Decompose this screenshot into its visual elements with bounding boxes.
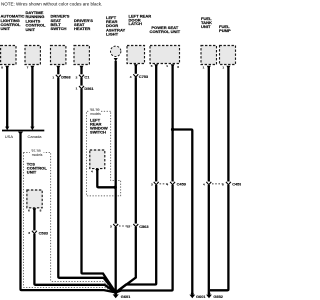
dashed link C459 right pair: [212, 183, 225, 185]
dashed boundary '98-'99 models: [87, 111, 121, 196]
component box fuel tank unit: [201, 46, 217, 70]
dashed boundary '97-'99 models left edge: [23, 153, 112, 292]
svg-text:LEFT REARDOORLATCH: LEFT REARDOORLATCH: [129, 13, 152, 26]
lamp left rear door ashtray light: [111, 46, 121, 61]
label '97-'99 models: [30, 151, 44, 155]
wire from daytime running lights control unit: [31, 66, 33, 127]
svg-text:4: 4: [203, 183, 205, 187]
connector C459 pin 4 fuel tank: [203, 182, 211, 187]
svg-text:C583: C583: [39, 230, 49, 235]
component box left rear door latch: [127, 46, 145, 68]
svg-text:C459: C459: [232, 182, 241, 187]
wire from driver's seat heater: [82, 66, 116, 292]
wire from driver's seat belt switch: [58, 66, 115, 292]
connector C563 pin 11 on door latch wire: [127, 224, 150, 229]
svg-text:1: 1: [222, 65, 224, 69]
svg-text:8: 8: [1, 65, 3, 69]
svg-text:4: 4: [91, 169, 93, 173]
svg-text:5: 5: [151, 64, 153, 68]
dashed link C563: [119, 225, 132, 227]
svg-text:AUTOMATICLIGHTINGCONTROLUNIT: AUTOMATICLIGHTINGCONTROLUNIT: [1, 14, 25, 32]
wire from left rear window switch to splice: [97, 169, 115, 187]
connector C459 pin 3: [151, 182, 159, 187]
splice bar USA / Canada: [2, 130, 44, 132]
connector C583 on TCS wire: [28, 230, 48, 235]
connector D568: [52, 74, 71, 79]
component box driver's seat belt switch: [51, 46, 66, 70]
component box driver's seat heater: [74, 46, 89, 70]
svg-text:LEFTREARWINDOWSWITCH: LEFTREARWINDOWSWITCH: [90, 118, 108, 135]
svg-text:FUELTANKUNIT: FUELTANKUNIT: [201, 16, 212, 29]
wire from left rear door latch: [116, 65, 136, 293]
svg-text:3: 3: [110, 225, 112, 229]
svg-text:3: 3: [151, 183, 153, 187]
svg-text:C459: C459: [177, 182, 187, 187]
svg-text:Canada: Canada: [28, 134, 43, 139]
dashed link C459 left pair: [160, 183, 170, 185]
svg-text:TCSCONTROLUNIT: TCSCONTROLUNIT: [27, 162, 48, 175]
component box left rear window switch: [90, 150, 105, 173]
wire from fuel pump joining G552: [210, 66, 228, 290]
connector C563 pin 3 on ashtray light wire: [110, 224, 118, 229]
connector C753: [130, 74, 149, 79]
svg-text:'98-'99models: '98-'99models: [90, 108, 101, 116]
wire from TCS control unit: [34, 209, 115, 293]
svg-text:D561: D561: [84, 86, 94, 91]
wire from automatic lighting control unit: [6, 66, 8, 127]
junction dot power seat branch: [171, 128, 174, 131]
svg-text:4: 4: [130, 75, 132, 79]
junction dot on ashtray light wire: [114, 186, 117, 189]
ground G552: [206, 292, 224, 299]
dashed boundary '97-'99 models top and right edge: [23, 153, 111, 289]
svg-text:FUELPUMP: FUELPUMP: [219, 24, 231, 33]
svg-text:1: 1: [203, 65, 205, 69]
svg-text:5: 5: [222, 183, 224, 187]
component box power seat control unit: [150, 46, 180, 70]
svg-text:C1: C1: [84, 75, 90, 80]
svg-text:6: 6: [177, 65, 179, 69]
ground G601 right: [189, 292, 206, 299]
connector C1: [76, 74, 91, 79]
svg-text:DRIVER'SSEATBELTSWITCH: DRIVER'SSEATBELTSWITCH: [51, 14, 70, 32]
ground G601 main: [113, 292, 132, 299]
svg-text:C753: C753: [139, 74, 149, 79]
wire power seat control unit pin 5: [116, 65, 156, 293]
wire power seat control unit pin 1: [116, 65, 173, 293]
component box daytime running lights control unit: [25, 46, 40, 70]
connector C459 pin 4: [166, 182, 186, 187]
svg-text:1: 1: [166, 64, 168, 68]
label '98-'99 models: [89, 109, 101, 113]
svg-text:D568: D568: [61, 75, 71, 80]
svg-text:C563: C563: [139, 224, 149, 229]
svg-text:6: 6: [28, 208, 30, 212]
svg-text:DAYTIMERUNNINGLIGHTSCONTROLUNI: DAYTIMERUNNINGLIGHTSCONTROLUNIT: [26, 10, 47, 32]
component box automatic lighting control unit: [1, 46, 16, 70]
svg-text:NOTE: Wires shown without colo: NOTE: Wires shown without color codes ar…: [1, 1, 102, 6]
connector C459 pin 5 fuel pump: [222, 182, 242, 187]
svg-text:POWER SEATCONTROL UNIT: POWER SEATCONTROL UNIT: [150, 25, 181, 34]
wire from ashtray light to ground G601: [115, 61, 117, 293]
svg-text:'97-'99models: '97-'99models: [31, 149, 43, 157]
svg-text:6: 6: [28, 231, 30, 235]
svg-text:7: 7: [27, 65, 29, 69]
branch wire to ground G601 right: [173, 130, 193, 294]
svg-text:G552: G552: [213, 294, 223, 299]
svg-text:DRIVER'SSEATHEATER: DRIVER'SSEATHEATER: [74, 18, 93, 31]
svg-text:G601: G601: [196, 294, 206, 299]
component box fuel pump: [220, 46, 236, 70]
svg-text:4: 4: [166, 183, 168, 187]
component box TCS control unit: [27, 190, 42, 212]
wire merged to ground G601: [21, 134, 116, 292]
svg-text:1: 1: [76, 87, 78, 91]
svg-text:8: 8: [40, 208, 42, 212]
svg-text:LEFTREARDOORASHTRAYLIGHT: LEFTREARDOORASHTRAYLIGHT: [106, 15, 125, 36]
svg-text:1: 1: [52, 75, 54, 79]
svg-text:11: 11: [127, 225, 131, 229]
connector D561: [76, 86, 95, 91]
wire from fuel tank unit to ground G552: [208, 66, 210, 293]
svg-text:USA: USA: [5, 134, 14, 139]
svg-text:G601: G601: [121, 294, 131, 299]
svg-text:2: 2: [76, 75, 78, 79]
